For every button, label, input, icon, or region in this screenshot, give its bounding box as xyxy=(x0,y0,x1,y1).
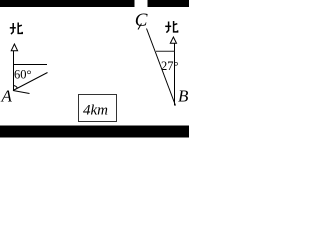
ray AB stub xyxy=(13,91,30,94)
top black bar right xyxy=(148,0,190,7)
north line at A xyxy=(13,51,15,91)
angle arc at A xyxy=(13,86,17,89)
glyph Bei (north) at B xyxy=(165,21,177,33)
svg-text:C: C xyxy=(135,10,148,31)
ray AC stub xyxy=(13,73,48,91)
white label box: filler right of north line at B xyxy=(176,52,186,77)
line BC xyxy=(147,29,176,106)
svg-text:60°: 60° xyxy=(14,68,32,82)
svg-text:4km: 4km xyxy=(83,103,108,119)
white label box: C xyxy=(137,0,146,29)
horizontal border line above 27 box xyxy=(156,50,175,52)
horizontal border line above 60 box xyxy=(14,64,48,66)
north arrowhead at B (hollow) xyxy=(170,37,176,43)
svg-text:27°: 27° xyxy=(161,59,179,73)
white label box: 27 degrees xyxy=(156,52,175,77)
north arrowhead at A (hollow) xyxy=(11,44,17,51)
white label box: north at A xyxy=(10,20,24,45)
glyph Bei (north) at A xyxy=(10,23,22,35)
white label box: A xyxy=(0,84,11,106)
top black bar left xyxy=(0,0,135,7)
white label box: north at B xyxy=(166,15,179,37)
svg-text:A: A xyxy=(1,87,13,106)
bottom black bar xyxy=(0,126,189,138)
white label box: 4km (with border) xyxy=(79,95,117,122)
north line at B xyxy=(174,44,176,106)
line stub below C xyxy=(138,24,142,30)
white label box: B xyxy=(176,82,189,105)
svg-text:B: B xyxy=(178,87,189,106)
white label box: 60 degrees xyxy=(10,65,40,91)
